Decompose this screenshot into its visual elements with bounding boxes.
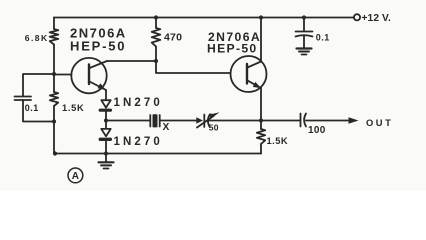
svg-text:X: X <box>163 122 170 133</box>
svg-text:1.5K: 1.5K <box>267 136 289 146</box>
svg-text:470: 470 <box>164 31 182 43</box>
svg-text:1N270: 1N270 <box>114 97 163 109</box>
svg-text:0.1: 0.1 <box>316 33 330 43</box>
svg-text:100: 100 <box>308 125 326 136</box>
svg-text:0.1: 0.1 <box>25 103 39 113</box>
svg-text:6.8K: 6.8K <box>25 33 49 43</box>
svg-text:OUT: OUT <box>366 117 393 128</box>
svg-text:1N270: 1N270 <box>114 136 163 148</box>
svg-text:HEP-50: HEP-50 <box>70 38 126 53</box>
svg-text:HEP-50: HEP-50 <box>207 41 257 55</box>
svg-text:1.5K: 1.5K <box>62 103 84 113</box>
svg-text:50: 50 <box>209 123 219 133</box>
svg-text:+12 V.: +12 V. <box>362 13 391 24</box>
svg-text:A: A <box>72 171 79 182</box>
